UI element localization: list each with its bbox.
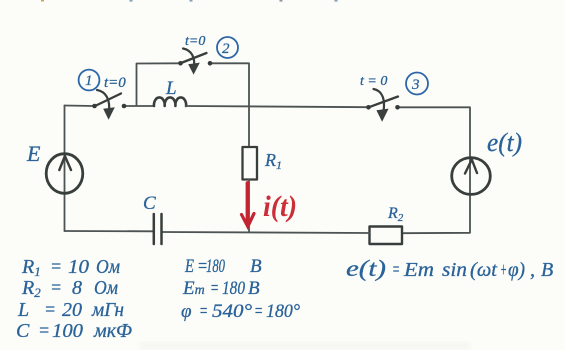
svg-text:φ=540°=180°: φ=540°=180° (181, 301, 300, 322)
svg-text:L: L (165, 78, 177, 99)
svg-text:e(t)=Emsin(ωt+φ),В: e(t)=Emsin(ωt+φ),В (346, 256, 553, 281)
svg-text:1: 1 (85, 73, 93, 89)
svg-text:E: E (26, 141, 41, 166)
svg-text:C: C (143, 193, 156, 214)
svg-text:i(t): i(t) (263, 190, 297, 223)
svg-text:2: 2 (222, 41, 230, 57)
svg-text:t = 0: t = 0 (360, 74, 387, 89)
svg-text:t=0: t=0 (104, 75, 126, 91)
svg-text:e(t): e(t) (487, 128, 522, 157)
svg-text:3: 3 (411, 77, 420, 93)
svg-text:t=0: t=0 (185, 34, 205, 49)
